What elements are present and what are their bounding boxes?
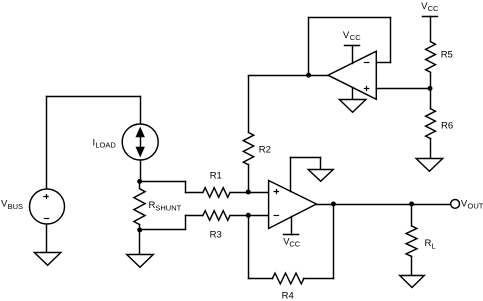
ground below RL bbox=[400, 276, 425, 288]
label VOUT bbox=[461, 198, 483, 210]
ground below U2 bbox=[339, 100, 366, 113]
voltage source VBUS bbox=[30, 189, 65, 224]
svg-text:CC: CC bbox=[350, 33, 361, 42]
label VCC U2 bbox=[343, 30, 361, 42]
wire U2 feedback loop bbox=[309, 18, 391, 76]
wire RL to ground bbox=[411, 257, 413, 276]
terminal VOUT bbox=[451, 200, 460, 209]
wire R3 to opamp inverting input bbox=[231, 215, 269, 217]
label R5 bbox=[441, 49, 453, 60]
wire R4 to node G bbox=[304, 205, 334, 279]
ground below RSHUNT bbox=[127, 255, 154, 268]
svg-text:LOAD: LOAD bbox=[95, 141, 116, 150]
node H junction bbox=[409, 202, 414, 207]
label R6 bbox=[441, 121, 453, 132]
wire VBUS to ILOAD top rail bbox=[47, 97, 141, 189]
op-amp U2 buffer bbox=[328, 51, 376, 99]
wire U1 output bbox=[317, 204, 451, 206]
wire R6 to ground bbox=[430, 139, 432, 159]
wire VBUS to ground bbox=[46, 225, 48, 253]
wire node B to ground bbox=[139, 230, 141, 255]
label VCC U1 bbox=[283, 237, 301, 249]
VCC rail bbox=[423, 17, 438, 42]
node B junction bbox=[137, 227, 142, 232]
svg-text:R6: R6 bbox=[441, 121, 453, 132]
resistor R1 bbox=[203, 188, 230, 198]
current source ILOAD bbox=[122, 124, 158, 160]
svg-text:BUS: BUS bbox=[8, 202, 23, 211]
label R4 bbox=[282, 291, 294, 301]
node D junction bbox=[246, 213, 251, 218]
svg-text:R1: R1 bbox=[210, 170, 222, 181]
resistor R4 bbox=[272, 273, 304, 284]
op-amp U1 bbox=[269, 181, 317, 229]
wire ILOAD to shunt bbox=[140, 161, 142, 182]
label VCC rail bbox=[421, 1, 439, 13]
label ILOAD bbox=[93, 137, 117, 149]
wire node F to R6 bbox=[430, 89, 432, 109]
resistor RL bbox=[406, 226, 417, 257]
wire U1 top pin to ground bbox=[291, 158, 321, 192]
node G junction bbox=[331, 202, 336, 207]
wire node D to R4 bbox=[249, 216, 273, 279]
svg-text:R4: R4 bbox=[282, 291, 294, 301]
svg-text:L: L bbox=[431, 241, 435, 250]
wire R5 to node F bbox=[430, 73, 432, 89]
svg-text:CC: CC bbox=[428, 4, 439, 13]
wire node A to R1 bbox=[140, 182, 203, 193]
resistor R6 bbox=[426, 109, 436, 139]
svg-text:R5: R5 bbox=[441, 49, 453, 60]
wire node H to RL bbox=[411, 205, 413, 226]
label VBUS bbox=[1, 199, 23, 211]
svg-text:R2: R2 bbox=[259, 145, 271, 156]
resistor R2 bbox=[243, 133, 253, 165]
node A junction bbox=[137, 179, 142, 184]
wire U2 to ground bbox=[352, 88, 354, 100]
wire R1 to opamp noninverting input bbox=[231, 192, 269, 194]
VCC supply U2 bbox=[345, 46, 360, 64]
resistor RSHUNT bbox=[134, 182, 145, 230]
svg-text:CC: CC bbox=[289, 239, 300, 248]
svg-text:OUT: OUT bbox=[468, 201, 483, 210]
resistor R5 bbox=[426, 42, 436, 73]
node E junction bbox=[306, 73, 311, 78]
wire node B to R3 bbox=[140, 216, 203, 230]
wire U2 noninverting input bbox=[377, 88, 431, 90]
resistor R3 bbox=[203, 211, 230, 221]
wire buffer output to R2 bbox=[249, 76, 329, 193]
label R3 bbox=[210, 230, 222, 241]
label RSHUNT bbox=[149, 200, 182, 212]
node C junction bbox=[246, 190, 251, 195]
label R1 bbox=[210, 170, 222, 181]
wire U1 bottom pin to VCC bbox=[284, 217, 299, 235]
svg-text:R3: R3 bbox=[210, 230, 222, 241]
label RL bbox=[425, 238, 436, 250]
label R2 bbox=[259, 145, 271, 156]
ground below VBUS bbox=[34, 253, 61, 266]
ground above U1 bbox=[308, 170, 333, 182]
svg-text:SHUNT: SHUNT bbox=[155, 203, 181, 212]
ground below R6 bbox=[416, 159, 443, 172]
node F junction bbox=[428, 86, 433, 91]
